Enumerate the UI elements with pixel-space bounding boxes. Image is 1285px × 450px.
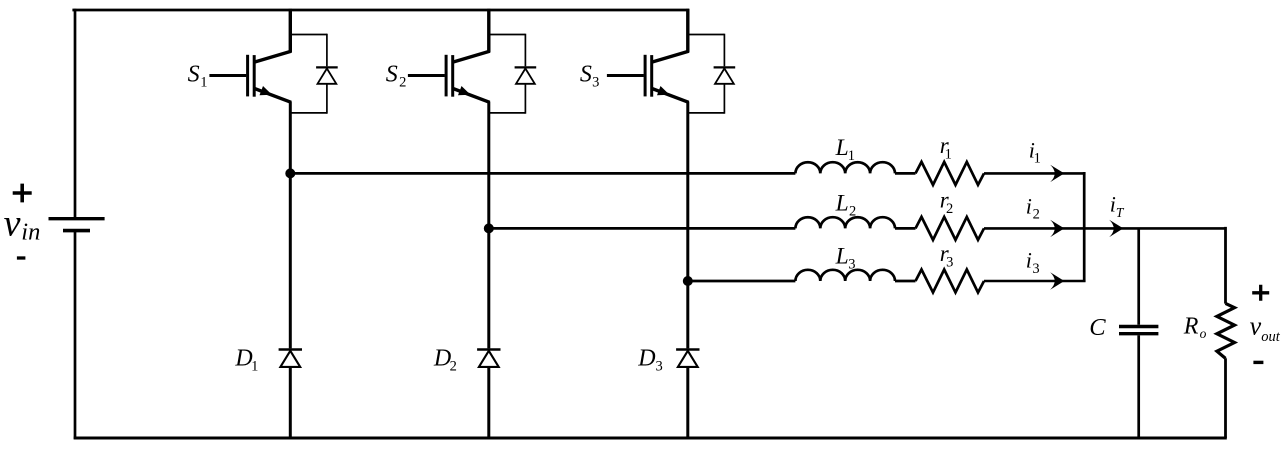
IGBT collector diagonal [652, 51, 688, 62]
svg-text:L: L [835, 135, 849, 161]
wire: phase 3 line from node to inductor L3 [688, 280, 796, 283]
svg-text:2: 2 [849, 204, 856, 220]
svg-text:L: L [835, 191, 849, 217]
label L1 [835, 135, 855, 164]
transistor S2 (IGBT with anti-parallel diode) [408, 9, 536, 114]
wire: collector lead of switch at x=290 [289, 9, 292, 53]
wire: anti-parallel diode loop bottom [688, 112, 725, 114]
IGBT emitter arrowhead [657, 86, 670, 95]
wire: load branch upper lead [1224, 227, 1227, 304]
battery source v_in: long positive plate [49, 217, 105, 220]
label S3 [580, 61, 599, 90]
label r3 [940, 241, 954, 271]
label v_out [1250, 311, 1281, 345]
svg-text:3: 3 [946, 254, 953, 270]
diode D1 [279, 350, 302, 367]
label - of v_in [17, 256, 26, 259]
label + of v_in [13, 184, 32, 203]
IGBT gate lead wire [209, 74, 246, 77]
wire: anti-parallel diode upper lead [723, 34, 725, 67]
anti-parallel diode cathode bar [714, 66, 736, 68]
anti-parallel diode cathode bar [515, 66, 537, 68]
label i_T [1110, 192, 1125, 220]
resistor r2 [916, 217, 985, 240]
wire: phase 2 line from r2 to junction [984, 227, 1226, 230]
label + of v_out [1252, 285, 1269, 301]
IGBT gate lead wire [607, 74, 644, 77]
freewheeling diode cathode bar [477, 348, 500, 350]
svg-text:1: 1 [200, 75, 207, 91]
svg-text:R: R [1183, 314, 1199, 340]
IGBT emitter arrowhead [260, 86, 273, 95]
label r1 [940, 133, 952, 163]
svg-text:D: D [637, 346, 655, 372]
wire: collector lead of switch at x=489 [487, 9, 490, 53]
wire: anti-parallel diode lower lead [326, 84, 328, 114]
label R_o [1183, 314, 1207, 342]
svg-text:1: 1 [848, 148, 855, 164]
wire: collector lead of switch at x=688 [686, 9, 689, 53]
svg-text:T: T [1116, 205, 1125, 220]
IGBT body: gate bar [246, 55, 249, 97]
wire: anti-parallel diode upper lead [326, 34, 328, 67]
svg-text:o: o [1200, 326, 1207, 341]
IGBT body: gate bar [644, 55, 647, 97]
anti-parallel diode triangle [318, 69, 337, 84]
wire: branch 2 vertical (diode D2 to bottom rail) [487, 367, 490, 438]
wire: capacitor upper lead [1137, 228, 1140, 324]
wire: bottom rail [74, 437, 1227, 440]
svg-text:D: D [234, 346, 252, 372]
IGBT emitter diagonal [453, 89, 489, 103]
label D3 [637, 346, 663, 375]
wire: top rail [72, 9, 689, 12]
svg-text:out: out [1261, 329, 1281, 345]
freewheeling diode cathode bar [279, 348, 302, 350]
arrowhead of current i1 [1050, 165, 1064, 182]
label S2 [386, 61, 407, 90]
IGBT emitter diagonal [652, 89, 688, 103]
freewheeling diode cathode bar [676, 348, 699, 350]
svg-text:S: S [580, 61, 592, 87]
label C [1089, 314, 1106, 341]
svg-text:2: 2 [399, 75, 406, 91]
label S1 [188, 61, 208, 90]
label v_in [4, 202, 41, 245]
freewheeling diode triangle [479, 351, 499, 367]
wire: anti-parallel diode loop top [290, 34, 327, 36]
svg-text:2: 2 [946, 201, 953, 217]
IGBT gate lead wire [408, 74, 445, 77]
svg-text:D: D [433, 346, 451, 372]
svg-text:1: 1 [1034, 151, 1041, 167]
label D2 [433, 346, 457, 375]
wire: branch 2 vertical (emitter to diode D2) [487, 102, 490, 349]
capacitor C top plate [1119, 325, 1158, 328]
transistor S1 (IGBT with anti-parallel diode) [209, 9, 337, 114]
svg-text:C: C [1089, 314, 1106, 341]
label - of v_out [1253, 361, 1263, 364]
svg-text:2: 2 [450, 359, 457, 375]
wire: branch 3 vertical (diode D3 to bottom rail) [686, 367, 689, 438]
svg-text:3: 3 [1032, 261, 1039, 277]
IGBT body: gate bar [445, 55, 448, 97]
capacitor C bottom plate [1119, 332, 1158, 335]
node: phase 3 tap junction dot [683, 276, 693, 286]
wire: between L3 and r3 [895, 280, 916, 283]
svg-text:i: i [1026, 193, 1032, 218]
label r2 [940, 187, 953, 217]
wire: load branch lower lead [1224, 358, 1227, 438]
inductor L1 [795, 162, 895, 173]
arrowhead of current i2 [1050, 220, 1064, 237]
resistor r3 [916, 270, 985, 293]
wire: between L1 and r1 [895, 172, 916, 175]
transistor S3 (IGBT with anti-parallel diode) [607, 9, 735, 114]
arrowhead of current i3 [1050, 272, 1064, 289]
wire: anti-parallel diode lower lead [524, 84, 526, 114]
svg-text:1: 1 [945, 147, 952, 163]
IGBT body: channel bar [650, 55, 653, 97]
IGBT body: channel bar [451, 55, 454, 97]
wire: branch 1 vertical (diode D1 to bottom rail) [289, 367, 292, 438]
wire: capacitor lower lead [1137, 335, 1140, 438]
svg-text:3: 3 [592, 75, 599, 91]
svg-text:i: i [1026, 248, 1032, 273]
label L2 [835, 191, 857, 220]
wire: summing junction vertical [1083, 172, 1086, 282]
battery source v_in: short negative plate [63, 229, 90, 233]
wire: between L2 and r2 [895, 227, 916, 230]
IGBT body: channel bar [253, 55, 256, 97]
wire: anti-parallel diode loop bottom [489, 112, 526, 114]
wire: anti-parallel diode loop bottom [290, 112, 327, 114]
IGBT emitter diagonal [255, 89, 291, 103]
IGBT collector diagonal [453, 51, 489, 62]
resistor r1 [916, 162, 985, 185]
arrowhead of current i_T [1109, 220, 1123, 237]
wire: anti-parallel diode loop top [688, 34, 725, 36]
IGBT collector diagonal [255, 51, 291, 62]
svg-text:1: 1 [251, 359, 258, 375]
wire: anti-parallel diode loop top [489, 34, 526, 36]
freewheeling diode triangle [280, 351, 300, 367]
svg-text:L: L [835, 244, 849, 270]
wire: phase 1 line from r1 to junction [984, 172, 1086, 175]
svg-text:in: in [21, 219, 40, 246]
resistor R_o zigzag [1217, 303, 1235, 358]
IGBT emitter arrowhead [458, 86, 471, 95]
node: phase 1 tap junction dot [285, 168, 295, 178]
label D1 [234, 346, 258, 375]
diode D3 [676, 350, 699, 367]
svg-text:2: 2 [1033, 207, 1040, 223]
inductor L3 [795, 270, 895, 281]
svg-text:v: v [4, 202, 21, 244]
svg-text:3: 3 [656, 359, 663, 375]
svg-text:S: S [386, 61, 398, 87]
wire: branch 1 vertical (emitter to diode D1) [289, 102, 292, 349]
node: phase 2 tap junction dot [484, 223, 494, 233]
wire: phase 1 line from node to inductor L1 [290, 172, 795, 175]
label i3 [1026, 248, 1040, 277]
anti-parallel diode triangle [516, 69, 535, 84]
wire: anti-parallel diode lower lead [723, 84, 725, 114]
freewheeling diode triangle [678, 351, 698, 367]
label i1 [1029, 137, 1041, 166]
label L3 [835, 244, 856, 273]
svg-text:S: S [188, 61, 200, 87]
wire: left rail lower (source - lead) [74, 232, 77, 439]
wire: left rail upper (source + lead) [74, 9, 77, 218]
diode D2 [477, 350, 500, 367]
wire: phase 3 line from r3 to junction [984, 280, 1086, 283]
anti-parallel diode triangle [715, 69, 734, 84]
inductor L2 [795, 217, 895, 228]
wire: anti-parallel diode upper lead [524, 34, 526, 67]
wire: phase 2 line from node to inductor L2 [489, 227, 796, 230]
wire: branch 3 vertical (emitter to diode D3) [686, 102, 689, 349]
anti-parallel diode cathode bar [316, 66, 338, 68]
svg-text:v: v [1250, 311, 1262, 340]
label i2 [1026, 193, 1040, 222]
svg-text:3: 3 [848, 257, 855, 273]
